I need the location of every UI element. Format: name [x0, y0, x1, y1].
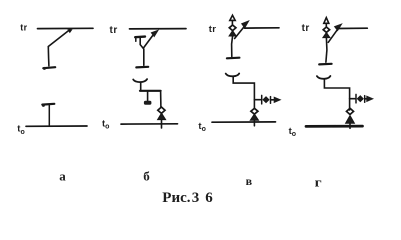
- svg-text:tr: tr: [302, 23, 310, 34]
- svg-text:tr: tr: [209, 24, 216, 35]
- svg-text:г: г: [315, 174, 322, 189]
- svg-text:а: а: [59, 169, 66, 184]
- svg-text:3: 3: [192, 190, 200, 206]
- svg-text:Рис.: Рис.: [162, 190, 190, 206]
- svg-text:в: в: [246, 174, 253, 188]
- svg-text:tr: tr: [110, 25, 118, 36]
- svg-text:tr: tr: [20, 23, 27, 33]
- svg-text:б: б: [143, 169, 150, 184]
- svg-text:6: 6: [205, 190, 213, 206]
